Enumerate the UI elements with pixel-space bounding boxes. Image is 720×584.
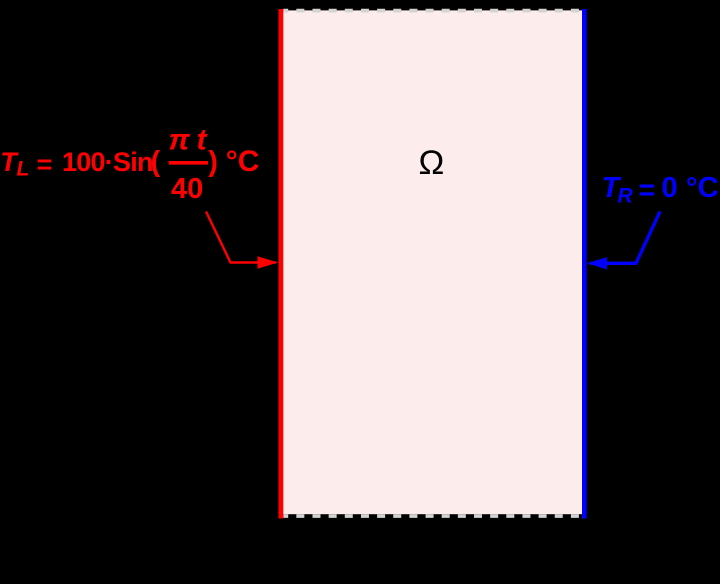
- svg-text:): ): [208, 146, 218, 178]
- right annotation arrow: [590, 212, 660, 264]
- left arrowhead: [258, 256, 278, 268]
- right boundary label TR: [602, 172, 719, 208]
- left boundary label TL: [0, 124, 259, 206]
- svg-text:R: R: [618, 185, 634, 208]
- svg-text:L: L: [17, 157, 30, 180]
- svg-text:100·Sin: 100·Sin: [62, 147, 153, 177]
- svg-text:0: 0: [662, 172, 678, 204]
- top dashed boundary: [283, 9, 582, 13]
- svg-text:Ω: Ω: [419, 144, 445, 182]
- svg-text:=: =: [37, 150, 53, 180]
- right arrowhead: [587, 257, 607, 269]
- svg-text:t: t: [197, 124, 209, 157]
- svg-text:°C: °C: [686, 172, 719, 204]
- left annotation arrow: [206, 212, 276, 263]
- svg-text:40: 40: [171, 173, 203, 205]
- left boundary (red): [279, 9, 284, 519]
- right boundary (blue): [582, 9, 587, 519]
- bottom dashed boundary: [283, 514, 582, 518]
- svg-text:=: =: [639, 175, 656, 207]
- svg-text:°C: °C: [226, 145, 260, 178]
- domain region fill: [281, 10, 584, 514]
- fraction bar: [169, 161, 208, 165]
- svg-text:π: π: [169, 124, 191, 157]
- svg-text:(: (: [151, 146, 161, 178]
